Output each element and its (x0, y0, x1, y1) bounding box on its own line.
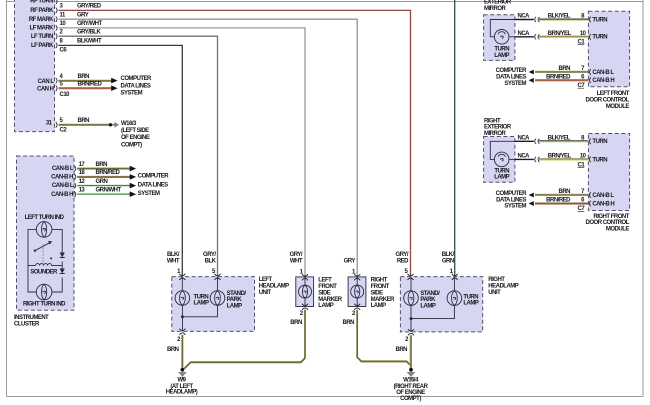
svg-text:SYSTEM: SYSTEM (121, 91, 143, 97)
svg-text:BRN: BRN (167, 347, 179, 353)
wire NCA black left mirror row2 (515, 36, 534, 38)
wire BRN/RED CAN H (59, 88, 112, 89)
arrow left (module2 CAN-B L) (529, 193, 534, 198)
module bracket row3 (589, 69, 590, 75)
svg-text:LF TURN: LF TURN (31, 34, 53, 40)
module: left exterior mirror box (484, 15, 515, 61)
wire GRN/WHT cluster CAN-B H (77, 193, 130, 195)
connector bowtie left headlamp pin2 (179, 329, 185, 335)
module: turn signal switch (left connector box, cut off at top) (15, 0, 55, 132)
svg-text:RED: RED (397, 258, 409, 264)
svg-text:COMPT): COMPT) (121, 142, 142, 148)
label TURN LAMP (right mirror) (494, 168, 509, 180)
module: left front side marker lamp box (296, 277, 314, 307)
svg-text:PARK: PARK (420, 297, 436, 303)
svg-text:BRN/YEL: BRN/YEL (548, 31, 572, 37)
module bracket row4 (589, 78, 590, 84)
inline connector right row2 (535, 157, 540, 162)
svg-text:CAN-B H: CAN-B H (51, 192, 73, 198)
ground symbol W16/4 (407, 372, 416, 379)
svg-text:TURN: TURN (592, 17, 607, 23)
label STAND/PARK LAMP (right headlamp) (420, 291, 440, 309)
svg-text:LAMP: LAMP (463, 301, 478, 307)
lamp: left front side marker (299, 277, 312, 307)
wire GRN cluster CAN-B L (77, 185, 130, 187)
label TURN LAMP (left mirror) (494, 47, 509, 59)
connector bowtie right marker pin2 (354, 304, 360, 310)
svg-text:GRN: GRN (442, 258, 454, 264)
arrow to computer data lines (CAN L) (111, 78, 117, 84)
svg-text:CAN-B H: CAN-B H (592, 78, 614, 84)
pin brackets CAN rows (56, 78, 57, 91)
module: right exterior mirror box (484, 137, 515, 183)
svg-text:BRN/RED: BRN/RED (546, 74, 571, 80)
module: left front door control module box (588, 11, 629, 87)
text COMPUTER DATA LINES SYSTEM (cluster) (138, 174, 170, 197)
svg-text:C1: C1 (578, 39, 586, 45)
module: right front side marker lamp box (348, 277, 366, 307)
svg-text:CAN-B L: CAN-B L (592, 70, 614, 76)
svg-text:CLUSTER: CLUSTER (14, 321, 40, 327)
svg-text:HEADLAMP: HEADLAMP (259, 284, 289, 290)
wire BRN right marker to W16/4 bus (357, 309, 411, 366)
label RIGHT EXTERIOR MIRROR (484, 118, 512, 137)
module: right front door control module box (588, 134, 629, 211)
svg-text:(LEFT SIDE: (LEFT SIDE (121, 128, 149, 134)
svg-text:BRN: BRN (559, 189, 571, 195)
wire NCA black left mirror row1 (515, 19, 534, 21)
svg-text:MIRROR: MIRROR (484, 6, 506, 12)
cluster internal wire loop (28, 229, 62, 292)
label TURN LAMP (left headlamp) (194, 294, 209, 306)
module bracket row1 (589, 17, 590, 23)
svg-text:BRN/YEL: BRN/YEL (548, 154, 572, 160)
svg-text:UNIT: UNIT (488, 290, 501, 296)
svg-text:FRONT: FRONT (318, 284, 337, 290)
inline connector row1 (535, 17, 540, 22)
label STAND/PARK LAMP (left headlamp) (227, 291, 247, 309)
module bracket row4 (module2) (589, 201, 590, 207)
connector bowtie left headlamp pin1 (179, 274, 185, 280)
svg-text:NCA: NCA (518, 31, 531, 37)
wire label GRY/RED (at right headlamp) (396, 252, 410, 264)
svg-text:DOOR CONTROL: DOOR CONTROL (586, 220, 630, 226)
wire BRN left marker to W9 bus (184, 309, 305, 369)
svg-text:DATA LINES: DATA LINES (496, 75, 526, 81)
svg-text:C6: C6 (60, 48, 68, 54)
svg-text:C10: C10 (60, 92, 71, 98)
svg-text:TURN: TURN (592, 139, 607, 145)
svg-text:DOOR CONTROL: DOOR CONTROL (586, 97, 630, 103)
svg-text:DATA LINES: DATA LINES (121, 83, 151, 89)
wire BLK/YEL row1 (539, 19, 588, 20)
svg-text:BRN: BRN (78, 74, 90, 80)
wire BLK/YEL right row1 (539, 141, 588, 142)
svg-text:LAMP: LAMP (494, 175, 509, 181)
right mirror internal wiring (490, 141, 515, 159)
svg-text:CAN-B H: CAN-B H (592, 202, 614, 208)
svg-text:FRONT: FRONT (371, 284, 390, 290)
pin brackets cluster rows (74, 166, 75, 197)
svg-text:MARKER: MARKER (318, 297, 342, 303)
svg-text:GRY: GRY (77, 13, 89, 19)
svg-text:RIGHT: RIGHT (484, 118, 501, 124)
svg-text:COMPUTER: COMPUTER (138, 174, 170, 180)
pin bracket ground row (56, 122, 57, 128)
svg-text:W9: W9 (178, 378, 187, 384)
wire label BLK/GRN (at right headlamp) (442, 252, 455, 264)
svg-text:SYSTEM: SYSTEM (138, 191, 160, 197)
svg-text:EXTERIOR: EXTERIOR (484, 125, 512, 131)
svg-text:RF TURN: RF TURN (30, 0, 53, 5)
switch dashed actuator line (42, 244, 44, 264)
lamp: right headlamp turn lamp (447, 291, 462, 306)
svg-text:LEFT: LEFT (259, 277, 273, 283)
svg-text:BLK/YEL: BLK/YEL (548, 136, 571, 142)
svg-text:RIGHT FRONT: RIGHT FRONT (593, 214, 629, 220)
svg-text:BRN/RED: BRN/RED (546, 198, 571, 204)
svg-text:LEFT FRONT: LEFT FRONT (597, 91, 630, 97)
svg-text:SYSTEM: SYSTEM (504, 81, 526, 87)
svg-text:LEFT TURN IND: LEFT TURN IND (25, 215, 65, 221)
svg-text:HEADLAMP): HEADLAMP) (166, 389, 198, 395)
svg-text:BRN/RED: BRN/RED (96, 170, 121, 176)
module bracket row2 (589, 34, 590, 40)
lamp: right headlamp stand/park lamp (404, 291, 419, 306)
svg-text:LEFT: LEFT (318, 278, 332, 284)
svg-text:RF MARK: RF MARK (29, 17, 54, 23)
svg-text:TURN: TURN (592, 157, 607, 163)
ground symbol W9 (178, 372, 187, 379)
svg-text:WHT: WHT (290, 258, 303, 264)
label TURN LAMP (right headlamp) (463, 294, 478, 306)
arrow to computer data lines (CAN H) (111, 85, 117, 91)
left mirror internal wiring (490, 20, 515, 37)
left headlamp internal wires top (182, 277, 217, 291)
ground dot W16/4 (409, 368, 413, 372)
sounder coil (28, 264, 62, 266)
arrow left (module1 CAN-B L) (529, 70, 534, 75)
svg-text:DATA LINES: DATA LINES (496, 197, 526, 203)
svg-text:MARKER: MARKER (371, 297, 395, 303)
ground dot W9 (181, 368, 185, 372)
svg-text:CAN-B L: CAN-B L (52, 166, 74, 172)
right headlamp internal wires bottom join (411, 305, 454, 332)
lamp: right turn indicator (36, 284, 52, 300)
svg-text:GRY/: GRY/ (290, 252, 303, 258)
module bracket row3 (module2) (589, 192, 590, 198)
svg-text:GRY: GRY (344, 258, 356, 264)
svg-text:COMPUTER: COMPUTER (496, 191, 528, 197)
arrow cluster row1 (130, 166, 136, 172)
svg-text:BRN: BRN (396, 347, 408, 353)
svg-text:GRY/: GRY/ (396, 252, 409, 258)
svg-text:WHT: WHT (167, 258, 180, 264)
svg-text:RF PARK: RF PARK (30, 8, 54, 14)
wire GRY/BLK horizontal+vertical to left headlamp stand/park (59, 36, 218, 276)
wire BRN cluster CAN-B L (77, 168, 130, 169)
wire BRN/YEL row2 (539, 36, 588, 37)
lamp: left headlamp turn lamp (175, 291, 190, 306)
svg-text:RIGHT TURN IND: RIGHT TURN IND (23, 301, 66, 307)
connector bowtie left marker pin1 (302, 274, 308, 280)
svg-text:RIGHT: RIGHT (371, 278, 388, 284)
wire label GRY/WHT (at left marker) (290, 252, 303, 264)
svg-text:BLK: BLK (205, 258, 217, 264)
arrow cluster row3 (130, 183, 136, 189)
wire BLK/GRN vertical to right headlamp turn (454, 0, 456, 277)
wire GRY/RED horizontal+vertical to right headlamp (59, 10, 411, 276)
svg-text:CAN-B H: CAN-B H (51, 175, 73, 181)
svg-text:BRN: BRN (96, 162, 108, 168)
svg-text:GRY/BLK: GRY/BLK (77, 30, 101, 36)
svg-text:BRN: BRN (559, 66, 571, 72)
wire BRN/RED module1 (535, 80, 588, 81)
pin brackets C6 rows (56, 0, 57, 48)
svg-text:LF PARK: LF PARK (31, 43, 54, 49)
label RIGHT HEADLAMP UNIT (488, 277, 518, 296)
label LEFT FRONT SIDE MARKER LAMP (318, 278, 342, 310)
switch contact dot (50, 257, 52, 259)
svg-text:INSTRUMENT: INSTRUMENT (14, 315, 49, 321)
splice dot W16/3 (109, 123, 112, 126)
svg-text:TURN: TURN (194, 294, 209, 300)
svg-text:COMPT): COMPT) (400, 396, 421, 402)
wire BRN module2 (535, 194, 588, 195)
module bracket row2 (module2) (589, 157, 590, 163)
svg-text:W16/3: W16/3 (121, 121, 137, 127)
connector bowtie right headlamp pin1 (452, 274, 458, 280)
svg-text:C2: C2 (60, 127, 68, 133)
module: right headlamp unit box (400, 277, 482, 332)
svg-text:C1: C1 (578, 162, 586, 168)
lamp: right mirror turn lamp (494, 152, 509, 167)
svg-text:COMPUTER: COMPUTER (496, 68, 528, 74)
svg-text:NCA: NCA (518, 14, 531, 20)
connector bowtie right headlamp pin5 (408, 274, 414, 280)
wire label GRY/BLK (at left headlamp) (203, 252, 217, 264)
svg-text:C7: C7 (578, 206, 586, 212)
label LEFT FRONT DOOR CONTROL MODULE (586, 91, 630, 110)
ground reference arrow W16/3 (112, 122, 119, 128)
connector bowtie right marker pin1 (354, 274, 360, 280)
svg-text:CAN H: CAN H (37, 86, 54, 92)
lamp: left headlamp stand/park lamp (210, 291, 225, 306)
svg-text:GRY/: GRY/ (203, 252, 216, 258)
wire label BLK/WHT (at left headlamp) (167, 252, 180, 264)
module: instrument cluster box (17, 156, 75, 310)
svg-text:GRN: GRN (96, 179, 108, 185)
diode D2 (60, 269, 65, 274)
svg-text:GRN/WHT: GRN/WHT (96, 188, 122, 194)
svg-text:EXTERIOR: EXTERIOR (484, 0, 512, 5)
wire BRN/RED cluster CAN-B H (77, 176, 130, 177)
arrow left (module2 CAN-B H) (529, 201, 534, 206)
label INSTRUMENT CLUSTER (14, 315, 49, 327)
svg-text:LAMP: LAMP (194, 301, 209, 307)
svg-text:DATA LINES: DATA LINES (138, 182, 168, 188)
arrow left (module1 CAN-B H) (529, 78, 534, 83)
svg-text:STAND/: STAND/ (420, 291, 440, 297)
svg-text:MODULE: MODULE (606, 227, 629, 233)
svg-text:COMPUTER: COMPUTER (121, 76, 153, 82)
wire GRY horizontal+vertical to right side marker (59, 19, 358, 277)
label RIGHT FRONT SIDE MARKER LAMP (371, 278, 395, 310)
connector bowtie left headlamp pin5 (215, 274, 221, 280)
svg-text:BRN: BRN (78, 118, 90, 124)
wire GRY/WHT horizontal+vertical to left side marker (59, 28, 306, 277)
svg-text:TURN: TURN (592, 35, 607, 41)
turn signal switch blade (35, 243, 50, 251)
svg-text:W16/4: W16/4 (403, 378, 419, 384)
wire BRN to W16/3 (59, 124, 109, 125)
svg-text:SYSTEM: SYSTEM (504, 204, 526, 210)
svg-text:SIDE: SIDE (371, 290, 384, 296)
svg-text:LAMP: LAMP (494, 53, 509, 59)
svg-text:TURN: TURN (463, 294, 478, 300)
wire NCA black right mirror row1 (515, 140, 534, 142)
text COMPUTER DATA LINES SYSTEM (left box) (121, 76, 153, 97)
svg-text:NCA: NCA (518, 154, 531, 160)
junction dot left headlamp (181, 315, 184, 318)
wire BRN CAN L (59, 80, 112, 81)
svg-text:BLK/YEL: BLK/YEL (548, 14, 571, 20)
text COMPUTER DATA LINES SYSTEM (module2) (496, 191, 528, 210)
svg-text:SIDE: SIDE (318, 290, 331, 296)
svg-text:HEADLAMP: HEADLAMP (488, 284, 518, 290)
svg-text:TURN: TURN (494, 168, 509, 174)
arrow cluster row4 (130, 191, 136, 197)
svg-text:CAN-B L: CAN-B L (52, 183, 74, 189)
svg-text:CAN-B L: CAN-B L (592, 193, 614, 199)
module bracket row1 (module2) (589, 139, 590, 145)
wire BRN/RED module2 (535, 203, 588, 204)
svg-text:LAMP: LAMP (318, 303, 333, 309)
arrow cluster row2 (130, 174, 136, 180)
svg-text:SOUNDER: SOUNDER (30, 269, 58, 275)
text COMPUTER DATA LINES SYSTEM (module1) (496, 68, 528, 87)
svg-text:LF MARK: LF MARK (30, 26, 55, 32)
right headlamp internal wires top (411, 277, 454, 291)
svg-text:GRY/WHT: GRY/WHT (77, 21, 102, 27)
lamp: right front side marker (351, 277, 364, 307)
label LEFT EXTERIOR MIRROR (cut at top) (484, 0, 512, 12)
svg-text:BLK/: BLK/ (167, 252, 180, 258)
svg-text:C7: C7 (578, 83, 586, 89)
svg-text:STAND/: STAND/ (227, 291, 247, 297)
text W9 (AT LEFT HEADLAMP) (166, 378, 198, 396)
svg-text:BLK/WHT: BLK/WHT (77, 39, 102, 45)
left headlamp internal wires bottom join (182, 305, 217, 331)
svg-text:BRN: BRN (343, 320, 355, 326)
svg-text:CAN L: CAN L (38, 79, 55, 85)
inline connector row2 (535, 34, 540, 39)
label RIGHT FRONT DOOR CONTROL MODULE (586, 214, 630, 233)
svg-text:OF ENGINE: OF ENGINE (121, 135, 150, 141)
label LEFT HEADLAMP UNIT (259, 277, 289, 296)
svg-text:LAMP: LAMP (420, 303, 435, 309)
wire BRN/YEL right row2 (539, 159, 588, 160)
svg-text:LAMP: LAMP (371, 303, 386, 309)
junction dot right headlamp (410, 317, 413, 320)
connector bowtie left marker pin2 (302, 304, 308, 310)
svg-text:RIGHT: RIGHT (488, 277, 505, 283)
svg-text:BLK/: BLK/ (442, 252, 455, 258)
wire BRN right headlamp to W16/4 (410, 335, 411, 368)
wire NCA black right mirror row2 (515, 158, 534, 160)
svg-text:BRN/RED: BRN/RED (78, 82, 103, 88)
inline connector right row1 (535, 139, 540, 144)
text W16/3 (LEFT SIDE OF ENGINE COMPT) (121, 121, 150, 149)
svg-text:UNIT: UNIT (259, 290, 272, 296)
svg-text:GRY/RED: GRY/RED (77, 4, 102, 10)
wire BRN module1 (535, 71, 588, 72)
svg-text:BRN: BRN (290, 320, 302, 326)
svg-text:NCA: NCA (518, 136, 531, 142)
wire BRN left headlamp to W9 (181, 335, 182, 368)
svg-text:TURN: TURN (494, 47, 509, 53)
lamp: left mirror turn lamp (494, 30, 509, 45)
connector bowtie right headlamp pin2 (408, 329, 414, 335)
diode D1 (60, 253, 65, 258)
text W16/4 (RIGHT REAR OF ENGINE COMPT) (394, 378, 429, 402)
svg-text:PARK: PARK (227, 297, 243, 303)
svg-text:MODULE: MODULE (606, 104, 629, 110)
svg-text:LAMP: LAMP (227, 303, 242, 309)
module: left headlamp unit box (172, 277, 255, 332)
lamp: left turn indicator (36, 222, 52, 238)
wire BLK/WHT horizontal+vertical to left headlamp turn (59, 45, 183, 276)
